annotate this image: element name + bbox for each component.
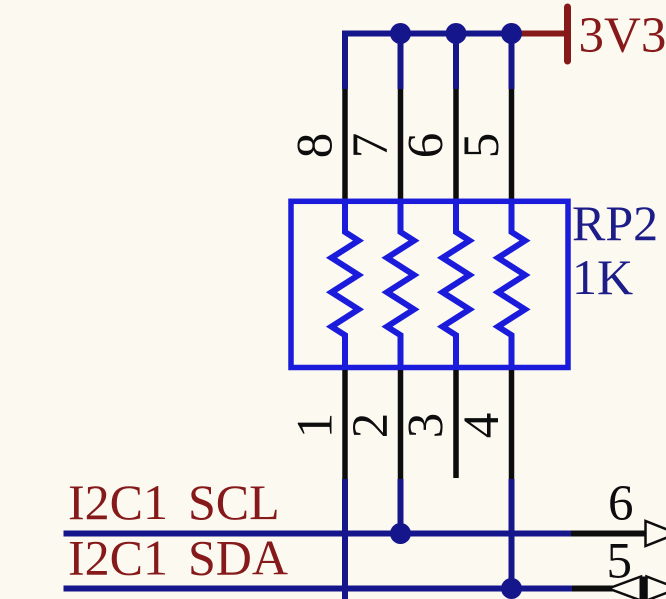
resistor element A zigzag bbox=[332, 201, 359, 368]
wire: pin1 net vertical down bbox=[342, 479, 348, 599]
wire: vertical stub pin 6 net bbox=[453, 34, 459, 90]
pin 4 of RP2 (bottom lead) bbox=[509, 370, 515, 480]
wire: I2C1 SDA horizontal bbox=[64, 586, 573, 592]
resistor element D zigzag bbox=[498, 201, 525, 368]
junction at pin6 / 3V3 bus bbox=[446, 23, 467, 44]
pin 7 of RP2 (top lead) bbox=[398, 89, 404, 201]
junction at pin7 / 3V3 bus bbox=[390, 23, 411, 44]
wire: I2C1 SCL horizontal bbox=[64, 531, 572, 537]
junction at pin2 / SCL bbox=[390, 523, 411, 544]
svg-text:8: 8 bbox=[288, 133, 344, 159]
wire: power stub to 3V3 port bbox=[514, 31, 568, 37]
svg-text:2: 2 bbox=[343, 413, 399, 439]
svg-text:7: 7 bbox=[343, 133, 399, 159]
pin 8 of RP2 (top lead) bbox=[342, 89, 348, 201]
svg-text:1: 1 bbox=[288, 413, 344, 439]
svg-text:6: 6 bbox=[399, 133, 455, 159]
wire: SCL port lead (black) bbox=[571, 531, 646, 537]
junction at pin5 / 3V3 bus bbox=[501, 23, 522, 44]
pin 6 of RP2 (top lead) bbox=[453, 89, 459, 201]
svg-text:RP2: RP2 bbox=[572, 195, 658, 251]
resistor element B zigzag bbox=[387, 201, 414, 368]
wire: 3V3 bus horizontal top bbox=[342, 31, 512, 37]
power port 3V3 bar bbox=[564, 7, 571, 61]
svg-text:6: 6 bbox=[608, 476, 634, 532]
wire: vertical stub pin 5 net bbox=[509, 34, 515, 90]
svg-text:I2C1 SCL: I2C1 SCL bbox=[68, 474, 280, 530]
resistor pack RP2 body bbox=[291, 201, 568, 367]
wire: vertical stub pin 7 net bbox=[398, 34, 404, 90]
wire: pin2 net vertical to SCL bbox=[398, 479, 404, 534]
wire: vertical stub pin 8 net bbox=[342, 31, 348, 90]
pin 1 of RP2 (bottom lead) bbox=[342, 370, 348, 480]
junction at pin4 / SDA bbox=[501, 578, 522, 599]
svg-text:3: 3 bbox=[399, 413, 455, 439]
port arrow bidirectional center bar (SDA) bbox=[640, 577, 648, 599]
resistor element C zigzag bbox=[443, 201, 470, 368]
svg-text:5: 5 bbox=[454, 133, 510, 159]
wire: pin4 net vertical to SDA bbox=[509, 479, 515, 589]
port arrow bidirectional left half (SDA) bbox=[609, 577, 642, 599]
svg-text:I2C1 SDA: I2C1 SDA bbox=[68, 530, 288, 586]
pin 5 of RP2 (top lead) bbox=[509, 89, 515, 201]
svg-text:3V3: 3V3 bbox=[579, 8, 666, 64]
svg-text:4: 4 bbox=[454, 413, 510, 439]
svg-text:1K: 1K bbox=[572, 249, 633, 305]
pin 3 of RP2 (bottom lead, unconnected) bbox=[453, 370, 459, 478]
port arrow bidirectional right half (SDA) bbox=[647, 577, 666, 599]
wire: SDA port lead (black) bbox=[572, 586, 666, 592]
pin 2 of RP2 (bottom lead) bbox=[398, 370, 404, 480]
port arrow output (SCL) bbox=[646, 521, 666, 546]
